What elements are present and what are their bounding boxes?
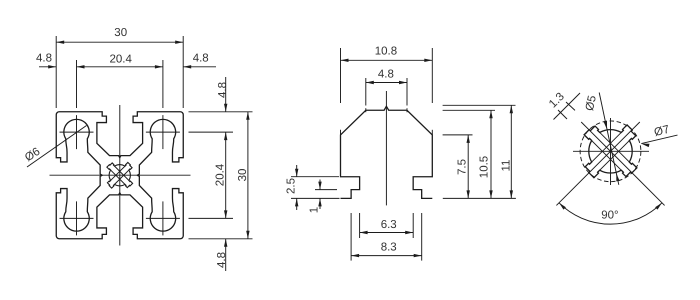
arrowheads: 7.5 <box>467 135 470 143</box>
horizontal centerline of profile <box>50 174 191 176</box>
dimension 4.8 (right-bottom): dimension line <box>225 239 227 271</box>
arrowheads: 1 (outside) <box>318 182 321 190</box>
dimension 30 (top overall width): extension lines <box>55 36 57 108</box>
dimension 10.5: dimension line <box>490 110 492 198</box>
dimension 1: extension line <box>315 189 337 191</box>
svg-text:6.3: 6.3 <box>381 219 397 231</box>
crosshair centerlines of corner hole bottom-right <box>146 201 180 235</box>
O7 reference circle (dashed) <box>580 121 641 182</box>
arrowheads: 30 top <box>56 41 64 44</box>
svg-text:8.3: 8.3 <box>381 242 397 254</box>
dimension 10.8: extension lines <box>340 48 342 103</box>
arrowheads: O5 leader <box>604 121 607 129</box>
svg-text:10.8: 10.8 <box>375 46 397 58</box>
dimension 20.4 (top): dimension line <box>77 66 163 68</box>
svg-text:11: 11 <box>501 160 513 172</box>
crosshair centerlines of corner hole top-right <box>146 115 180 149</box>
dimension 1: dimension line with outside arrows <box>319 180 321 190</box>
corner tick marks at top-flat ends <box>365 108 367 112</box>
arrowheads: 10.5 <box>489 110 492 118</box>
svg-text:10.5: 10.5 <box>479 156 491 178</box>
dimension 4.8 (right-top): dimension line <box>225 77 227 112</box>
center bore inner groove edge lines <box>110 165 131 186</box>
dimension 30 (top): dimension line <box>56 41 183 43</box>
svg-text:7.5: 7.5 <box>457 159 469 175</box>
dimension 10.8: dimension line <box>341 59 433 61</box>
arrowheads: right chain <box>224 104 227 112</box>
arrowheads: 90 degree arc <box>655 203 662 210</box>
profile outline (30x30 extrusion cross-section with 4 T-slots) <box>56 112 183 239</box>
svg-text:4.8: 4.8 <box>217 82 229 98</box>
vertical centerline of slot detail <box>385 91 387 205</box>
bottom surface extension line (right) <box>443 197 516 199</box>
dimension 2.5: extension lines <box>291 176 339 178</box>
dimension 30 (right): dimension line <box>247 112 249 239</box>
svg-text:4.8: 4.8 <box>216 252 228 268</box>
arrowheads: 20.4 top <box>77 65 85 68</box>
corner tick marks at chamfer/wall corners <box>340 130 342 136</box>
dimension 11: extension line <box>443 104 516 106</box>
arrowheads: 4.8 top-left / top-right <box>48 65 56 68</box>
center bore inner groove edge lines (enlarged) <box>590 130 632 172</box>
svg-text:30: 30 <box>237 169 249 182</box>
diagonal centerline NW-SE <box>581 122 664 205</box>
dimension 2.5: dimension line with outside arrows <box>296 165 298 177</box>
arrowheads: 2.5 (outside) <box>295 169 298 177</box>
arrowheads: 8.3 <box>351 254 359 257</box>
vertical centerline of bore detail <box>610 118 612 185</box>
svg-text:30: 30 <box>114 27 127 39</box>
dimension 11: dimension line <box>510 105 512 198</box>
diagonal centerline NE-SW <box>556 122 639 205</box>
dimension 10.5: extension line <box>443 109 495 111</box>
svg-text:4.8: 4.8 <box>36 52 52 64</box>
arrowheads: 11 <box>510 105 513 113</box>
leader line for O6 <box>27 126 87 168</box>
dimension 20.4 (right): dimension line <box>225 132 227 218</box>
dimension 8.3: extension lines <box>350 213 352 261</box>
arrowheads: 6.3 <box>360 231 368 234</box>
dimension 7.5: extension line <box>443 134 473 136</box>
dimension 1.3: dimension line <box>554 93 581 120</box>
crosshair centerlines of corner hole top-left <box>60 115 94 149</box>
crosshair centerlines of corner hole bottom-left <box>60 201 94 235</box>
dimension 8.3: dimension line <box>351 255 422 257</box>
arrowheads: 4.8 <box>366 81 374 84</box>
svg-text:1: 1 <box>309 207 321 213</box>
horizontal centerline of bore detail <box>573 150 649 152</box>
slot detail outline (T-slot groove profile) <box>341 106 433 198</box>
arrowhead: O7 leader <box>641 144 649 148</box>
svg-text:90°: 90° <box>601 210 618 222</box>
dimension 1.3: tick extension stubs <box>558 102 575 119</box>
dimension 4.8 (top-left): dimension line <box>39 66 56 68</box>
dimension 6.3: extension lines <box>359 213 361 238</box>
O5 diameter leader line <box>599 93 619 185</box>
dimension 20.4 (top): extension lines <box>76 60 78 108</box>
svg-text:4.8: 4.8 <box>378 69 394 81</box>
dimension 6.3: dimension line <box>360 232 414 234</box>
svg-text:4.8: 4.8 <box>193 52 209 64</box>
right chain: extension lines (top edge, 4.8, 20.4, bottom edge) <box>189 111 253 113</box>
dimension 4.8: extension lines <box>365 78 367 106</box>
svg-text:20.4: 20.4 <box>214 163 226 186</box>
O7 leader line <box>641 135 677 144</box>
90 degree angle dimension arc <box>559 203 662 224</box>
svg-text:2.5: 2.5 <box>285 178 297 194</box>
center bore outline (enlarged) <box>584 125 637 178</box>
dimension 4.8: dimension line <box>366 82 407 84</box>
svg-text:20.4: 20.4 <box>110 54 133 66</box>
vertical centerline of profile <box>119 105 121 246</box>
dimension 7.5: dimension line <box>467 135 469 199</box>
dimension 4.8 (top-right): dimension line <box>183 66 216 68</box>
center bore hole (star/cross shaped) <box>107 162 133 188</box>
arrowheads: 10.8 <box>341 59 349 62</box>
